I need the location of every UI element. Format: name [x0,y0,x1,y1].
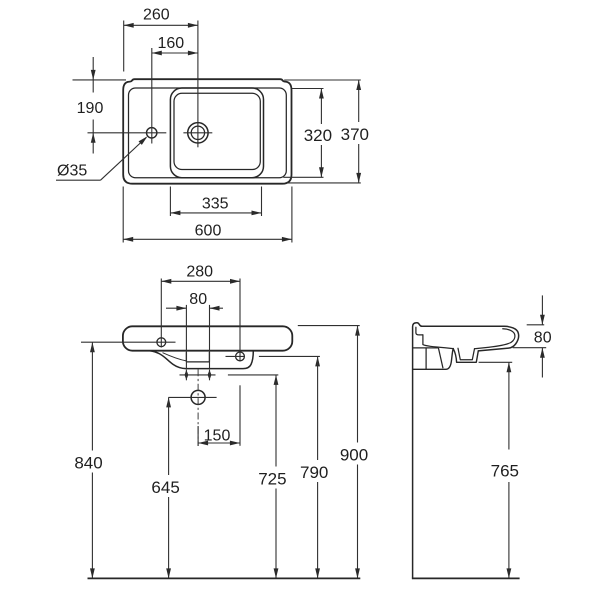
dimension 80 (fixing holes spacing) [166,291,223,369]
dimension 335 [170,187,261,217]
svg-text:335: 335 [202,196,229,213]
plan top-edge left extension (190 upper reference) [73,79,127,81]
765 upper reference line [479,361,513,363]
plan view: bowl outer edge [170,88,263,178]
left bolt reference line (840 upper reference) [81,341,176,343]
svg-text:320: 320 [304,126,332,145]
side view: nose inner lip line [503,329,515,343]
svg-text:80: 80 [534,330,552,347]
floor line (side view) [412,577,520,579]
dimension 900 [340,326,368,579]
dimension 370 [284,80,369,183]
svg-text:Ø35: Ø35 [57,163,87,180]
svg-text:160: 160 [157,35,184,52]
front view: left fixing bolt hole [157,338,166,347]
dimension 80 (side view rim height) [513,295,552,377]
dimension 790 [300,356,328,578]
front view: left wall-fixing hole mark [185,370,189,381]
dimension 600 [123,187,292,243]
dimension 320 [283,89,332,178]
svg-text:600: 600 [195,222,222,239]
right bolt reference line (790 upper reference) [226,355,320,357]
plan view: bowl inner edge [174,93,260,169]
front view: bowl underside bulge [150,351,253,369]
dimension 765 [491,362,519,578]
side view: bowl interior back and bottom line [423,335,453,349]
725 upper reference line [228,374,278,376]
svg-text:645: 645 [151,478,179,497]
dimension 260 [124,6,198,71]
svg-text:725: 725 [258,469,286,488]
front view: supply/waste hole circle [191,390,205,404]
front view: right fixing bolt hole [236,352,245,361]
side view: drain cup outer [453,349,478,363]
front view: right wall-fixing hole mark [208,370,212,381]
drain hole outer circle [188,123,208,143]
svg-text:840: 840 [74,454,102,473]
side view: drain cup inner [458,348,475,359]
svg-text:260: 260 [143,6,170,23]
drain centerline vertical [197,21,199,148]
tap hole circle [147,128,157,138]
dimension 840 [74,342,102,578]
front view: bowl underside inner slant line [163,353,186,361]
floor line (front view) [88,577,361,579]
side view: back wall step [416,327,423,335]
supply hole crosshair horizontal (645 upper reference) [168,396,216,398]
svg-text:190: 190 [77,100,104,117]
dimension 280 [161,263,240,445]
front view: basin body outline [123,326,292,350]
plan view: outer rim outline of basin [123,79,291,184]
plan view: inner rim edge [129,88,287,178]
drain hole inner circle [191,126,204,139]
wall-fixing holes reference line [180,374,216,376]
side view: wall line and basin profile outline [413,323,519,579]
tap hole centerline vertical [151,48,153,144]
dimension 190 [77,57,104,154]
supply hole centerline vertical [197,369,199,446]
basin top reference line (900 upper reference) [298,325,360,327]
dimension 645 [151,397,179,578]
dimension 150 [198,426,240,446]
svg-text:900: 900 [340,445,368,464]
front view: drain outlet box [186,352,209,362]
svg-text:80: 80 [189,291,207,308]
svg-text:280: 280 [186,263,213,280]
svg-text:150: 150 [204,428,231,445]
side view: support bracket [413,348,454,369]
dimension 160 [152,35,198,56]
label Ø35 with leader to tap hole [56,136,148,180]
side view: bowl interior upper slant line [475,343,511,349]
svg-text:790: 790 [300,463,328,482]
drain crosshair horizontal [183,132,212,134]
svg-text:765: 765 [491,462,519,481]
svg-text:370: 370 [341,125,369,144]
dimension 725 [258,375,286,579]
tap hole crosshair / 190 lower reference [88,132,167,134]
